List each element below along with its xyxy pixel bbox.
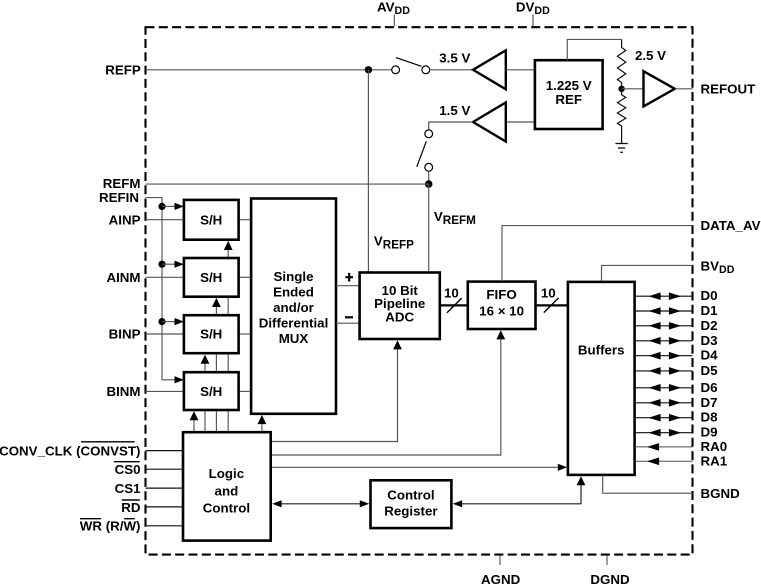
wire REFM pin line — [146, 183, 429, 185]
svg-text:ADC: ADC — [385, 310, 414, 325]
op-amp buffer 3.5V — [473, 50, 506, 89]
wire D6 pin — [635, 387, 693, 389]
svg-text:AINM: AINM — [106, 270, 140, 285]
resistor R2 (bottom of divider) — [617, 89, 625, 144]
svg-text:D5: D5 — [701, 363, 719, 378]
clock line to S/H 4 — [193, 420, 195, 432]
svg-text:D4: D4 — [701, 348, 719, 363]
arrowhead D8 left — [649, 414, 661, 422]
arrowhead into Buffers left — [558, 464, 567, 471]
svg-text:D8: D8 — [701, 410, 718, 425]
svg-text:REFOUT: REFOUT — [701, 81, 756, 96]
wire BGND from Buffers bottom — [603, 475, 693, 493]
arrowhead D4 right — [669, 352, 681, 360]
svg-text:CS1: CS1 — [115, 481, 142, 496]
wire REF box to 1.5V buffer — [506, 121, 535, 123]
wire CONV_CLK pin — [146, 450, 184, 452]
arrowhead D7 left — [649, 399, 661, 407]
svg-text:BVDD: BVDD — [701, 259, 735, 277]
svg-text:Differential: Differential — [259, 316, 329, 331]
op-amp buffer 2.5V — [644, 71, 675, 106]
wire node to 2.5V buffer — [622, 88, 644, 90]
wire REFIN branch to S/H 4 — [162, 379, 176, 381]
arrowhead D6 left — [649, 384, 661, 392]
svg-text:D0: D0 — [701, 288, 718, 303]
switch SW2 (1.5V buffer to REFM rail) — [417, 130, 433, 171]
node on REFP wire — [365, 66, 372, 73]
svg-text:REF: REF — [555, 92, 582, 107]
svg-text:S/H: S/H — [200, 212, 222, 227]
overline RD — [122, 499, 140, 501]
svg-text:FIFO: FIFO — [486, 287, 516, 302]
node REFIN branch 3 — [158, 318, 165, 325]
arrowhead D2 right — [669, 322, 681, 330]
wire 2.5V buffer to REFOUT pin — [675, 88, 693, 90]
select line to MUX — [261, 424, 263, 432]
svg-text:D3: D3 — [701, 333, 718, 348]
arrowhead into Control Register left — [360, 500, 369, 507]
wire AINM pin — [146, 276, 184, 278]
label minus — [345, 316, 353, 318]
svg-text:2.5 V: 2.5 V — [635, 48, 666, 63]
wire RA1 pin — [635, 460, 693, 462]
voltage reference U1 1.225V REF — [535, 60, 603, 129]
svg-text:AVDD: AVDD — [377, 0, 410, 17]
wire S/H 2 output to MUX — [239, 276, 252, 278]
ground symbol — [615, 144, 627, 153]
arrowhead REFIN into S/H 2 — [175, 261, 184, 268]
wire switch to REFM node — [428, 171, 430, 184]
op-amp buffer 1.5V — [473, 103, 506, 142]
svg-text:D9: D9 — [701, 425, 718, 440]
svg-text:Control: Control — [387, 488, 434, 503]
wire DATA_AV from FIFO top — [502, 226, 693, 282]
arrowhead into S/H 1 — [224, 241, 233, 250]
wire S/H 3 output to MUX — [239, 333, 252, 335]
svg-text:RA0: RA0 — [701, 439, 728, 454]
svg-text:RD: RD — [121, 500, 141, 515]
bus ADC to FIFO — [440, 304, 468, 306]
svg-text:D2: D2 — [701, 318, 718, 333]
wire REF box top feedback to resistor divider — [567, 39, 621, 60]
resistor R1 (top of divider) — [617, 39, 625, 88]
svg-text:3.5 V: 3.5 V — [439, 50, 470, 65]
wire D4 pin — [635, 355, 693, 357]
arrowhead D9 left — [649, 429, 661, 437]
wire Logic to ADC clock — [271, 349, 398, 442]
arrowhead into Control Register right — [453, 500, 462, 507]
wire RA0 pin — [635, 446, 693, 448]
svg-text:Buffers: Buffers — [578, 342, 625, 357]
arrowhead D3 right — [669, 337, 681, 345]
svg-text:DVDD: DVDD — [516, 0, 550, 17]
wire S/H 4 output to MUX — [239, 390, 252, 392]
wire Logic to Control Register (bidirectional) — [276, 503, 365, 505]
arrowhead REFIN into S/H 3 — [175, 318, 184, 325]
arrowhead D9 right — [669, 429, 681, 437]
wire D1 pin — [635, 310, 693, 312]
wire REFIN branch to S/H 1 — [162, 205, 176, 207]
arrowhead REFIN into S/H 4 — [175, 376, 184, 383]
wire MUX plus output to ADC — [336, 285, 360, 287]
svg-text:D6: D6 — [701, 380, 718, 395]
svg-text:16 × 10: 16 × 10 — [479, 304, 524, 319]
wire BINP pin — [146, 333, 184, 335]
svg-text:BINP: BINP — [109, 327, 141, 342]
arrowhead RA0 left — [647, 443, 659, 451]
arrowhead into S/H 3 — [201, 355, 210, 364]
svg-text:Control: Control — [203, 501, 250, 516]
arrowhead D5 right — [669, 367, 681, 375]
svg-text:S/H: S/H — [200, 384, 222, 399]
svg-text:BINM: BINM — [106, 384, 140, 399]
clock line to S/H 1 — [227, 249, 229, 432]
arrowhead D1 right — [669, 307, 681, 315]
svg-text:Register: Register — [384, 504, 437, 519]
wire MUX minus output to ADC — [336, 322, 360, 324]
svg-text:10: 10 — [541, 285, 556, 300]
wire 1.5V buffer output to switch — [429, 122, 473, 130]
register U11 Control Register — [371, 480, 452, 528]
wire CS0 pin — [146, 468, 184, 470]
arrowhead D7 right — [669, 399, 681, 407]
svg-text:CS0: CS0 — [115, 462, 141, 477]
arrowhead into MUX — [258, 415, 267, 424]
svg-text:1.5 V: 1.5 V — [439, 103, 470, 118]
svg-text:VREFP: VREFP — [374, 233, 414, 251]
wire CS1 pin — [146, 487, 184, 489]
arrowhead D4 left — [649, 352, 661, 360]
svg-text:10: 10 — [444, 285, 459, 300]
logic U10 Logic and Control — [183, 432, 271, 540]
arrowhead RA1 left — [647, 458, 659, 466]
wire AINP pin — [146, 219, 184, 221]
pin DGND tick — [606, 555, 608, 565]
pin AVDD tick — [393, 15, 395, 27]
clock line to S/H 3 — [204, 364, 206, 433]
wire BVDD to Buffers top — [602, 265, 693, 282]
arrowhead D5 left — [649, 367, 661, 375]
wire D2 pin — [635, 325, 693, 327]
arrowhead D6 right — [669, 384, 681, 392]
wire RD pin — [146, 506, 184, 508]
svg-text:D1: D1 — [701, 303, 719, 318]
svg-text:RA1: RA1 — [701, 453, 728, 468]
svg-text:S/H: S/H — [200, 327, 222, 342]
wire BINM pin — [146, 390, 184, 392]
wire REFP pin to switch — [146, 69, 392, 71]
node REFIN branch 2 — [158, 261, 165, 268]
svg-text:and: and — [215, 483, 239, 498]
arrowhead REFIN into S/H 1 — [175, 203, 184, 210]
wire REFIN pin — [146, 198, 163, 380]
svg-text:Ended: Ended — [273, 285, 314, 300]
svg-text:D7: D7 — [701, 395, 718, 410]
wire D3 pin — [635, 340, 693, 342]
svg-text:DGND: DGND — [590, 572, 630, 585]
wire D7 pin — [635, 402, 693, 404]
svg-text:S/H: S/H — [200, 270, 222, 285]
wire Logic to Buffers enable — [271, 466, 559, 468]
svg-text:REFM: REFM — [103, 176, 141, 191]
adc U7 10 Bit Pipeline ADC — [360, 273, 440, 340]
svg-text:Logic: Logic — [209, 466, 245, 481]
svg-text:and/or: and/or — [273, 300, 314, 315]
bus slash mark 2 — [544, 298, 559, 313]
buffers U9 — [568, 282, 635, 475]
sample/hold U3 S/H 2 — [184, 258, 239, 297]
wire VREFM rail down to ADC — [428, 184, 430, 272]
wire D0 pin — [635, 295, 693, 297]
sample/hold U2 S/H 1 — [184, 200, 239, 240]
chip boundary (dashed) — [146, 27, 693, 554]
arrowhead D8 right — [669, 414, 681, 422]
clock line to S/H 2 — [215, 307, 217, 432]
svg-text:DATA_AV: DATA_AV — [701, 218, 761, 233]
svg-text:AGND: AGND — [481, 572, 521, 585]
svg-text:1.225 V: 1.225 V — [546, 78, 592, 93]
bus FIFO to Buffers — [536, 304, 568, 306]
svg-text:AINP: AINP — [109, 212, 141, 227]
overline WR — [80, 518, 101, 520]
arrowhead D0 right — [669, 292, 681, 300]
wire VREFP rail down to ADC — [367, 70, 369, 273]
label plus — [345, 273, 353, 282]
sample/hold U4 S/H 3 — [184, 315, 239, 353]
svg-text:REFP: REFP — [105, 62, 141, 77]
svg-text:BGND: BGND — [701, 486, 741, 501]
wire D9 pin — [635, 432, 693, 434]
svg-text:Single: Single — [274, 269, 314, 284]
arrowhead into Logic right — [272, 500, 281, 507]
svg-text:REFIN: REFIN — [99, 190, 139, 205]
wire D5 pin — [635, 370, 693, 372]
pin DVDD tick — [532, 15, 534, 27]
wire Control Register to Buffers (bidirectional) — [461, 485, 581, 504]
node REFIN branch 1 — [158, 203, 165, 210]
fifo U8 FIFO 16x10 — [468, 282, 536, 329]
multiplexer U6 MUX — [251, 199, 336, 414]
wire 3.5V buffer to REF box — [506, 69, 535, 71]
wire S/H 1 output to MUX — [239, 219, 252, 221]
arrowhead into S/H 4 — [190, 411, 199, 420]
arrowhead into ADC bottom — [393, 340, 402, 349]
switch SW1 (REFP to 3.5V buffer) — [392, 58, 430, 74]
arrowhead into FIFO bottom — [496, 330, 505, 339]
wire switch to 3.5V buffer — [430, 69, 473, 71]
svg-text:WR (R/W): WR (R/W) — [80, 519, 141, 534]
arrowhead D3 left — [649, 337, 661, 345]
wire WR pin — [146, 525, 184, 527]
svg-text:CONV_CLK (CONVST): CONV_CLK (CONVST) — [0, 443, 141, 458]
node divider midpoint — [618, 86, 624, 92]
wire D8 pin — [635, 417, 693, 419]
arrowhead into S/H 2 — [212, 298, 221, 307]
wire Logic to FIFO clock — [271, 339, 501, 455]
arrowhead D0 left — [649, 292, 661, 300]
overline CS0 — [114, 461, 140, 463]
wire REFIN branch to S/H 3 — [162, 321, 176, 323]
sample/hold U5 S/H 4 — [184, 372, 239, 410]
arrowhead D1 left — [649, 307, 661, 315]
svg-text:MUX: MUX — [279, 331, 309, 346]
node on REFM wire — [425, 180, 433, 188]
wire REFIN branch to S/H 2 — [162, 263, 176, 265]
svg-text:VREFM: VREFM — [434, 209, 476, 227]
overline CONVST — [81, 441, 135, 443]
overline W of R/W — [124, 518, 135, 520]
arrowhead into Buffers bottom — [577, 476, 586, 485]
pin AGND tick — [499, 555, 501, 565]
bus slash mark — [447, 298, 462, 313]
arrowhead D2 left — [649, 322, 661, 330]
